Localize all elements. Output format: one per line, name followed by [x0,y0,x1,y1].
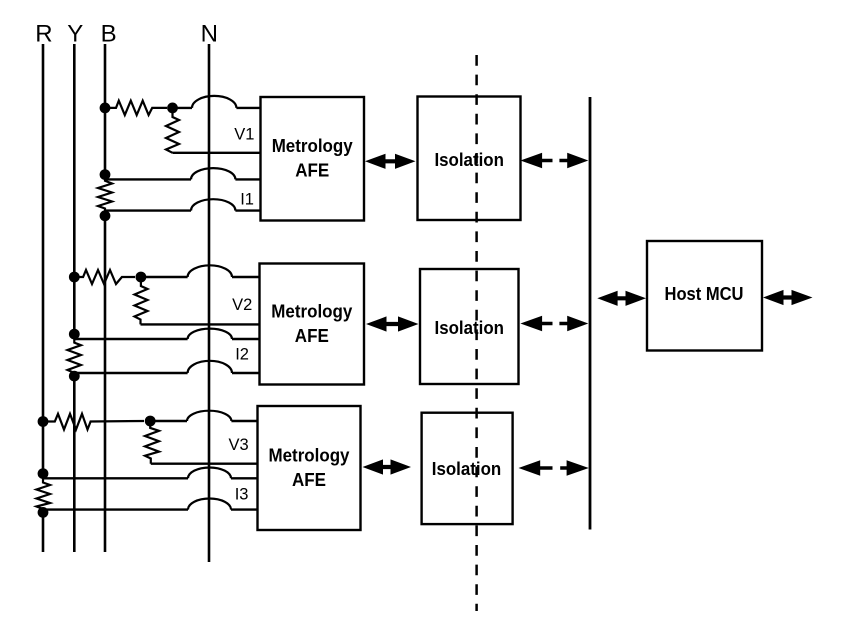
op-amp U3 Metrology AFE block 3 [258,406,361,530]
wire V1- to AFE [173,152,262,154]
host MCU block [647,241,762,351]
isolation block ISO2 [420,269,519,384]
resistor R3b (V3 divider lower) [145,421,159,464]
wire R phase bus lower [42,511,45,552]
wire double arrow AFE3 to ISO3 [363,459,412,474]
svg-text:V1: V1 [234,126,254,144]
wire broken arrow ISO1 to bus [520,153,552,169]
wire B phase bus lower [104,214,107,552]
wire hop I3- over N [188,499,231,510]
isolation block ISO1 [418,97,521,221]
node junction dot I3+ [38,468,49,479]
wire I1+ right segment to AFE [235,178,261,180]
wire I2- left segment [74,372,187,374]
wire double arrow bus to Host MCU [597,291,646,306]
wire I2- right segment to AFE [232,372,260,374]
wire I3+ right segment to AFE [231,477,259,479]
svg-text:I3: I3 [235,486,249,504]
svg-text:I1: I1 [240,191,254,209]
node junction dot V3 tap [145,416,156,427]
wire hop I1+ over N [191,168,235,179]
node junction dot I2+ [69,329,80,340]
svg-text:Isolation: Isolation [432,459,502,479]
svg-text:Metrology: Metrology [272,136,353,156]
wire V3- to AFE [151,463,259,465]
isolation block ISO3 [422,413,513,524]
op-amp U2 Metrology AFE block 2 [260,264,365,385]
node junction dot V2 tap [136,272,147,283]
wire Y phase bus upper [73,44,76,336]
svg-text:N: N [201,21,218,48]
node junction dot B/V1 [100,103,111,114]
node junction dot V1 tap [167,103,178,114]
wire V1+ left segment [173,107,193,109]
wire V2+ left segment [141,276,188,278]
wire B phase bus upper [104,44,107,177]
svg-text:B: B [101,21,117,48]
wire V1+ right segment to AFE [236,107,261,109]
wire I1- right segment to AFE [235,209,261,211]
svg-text:Host MCU: Host MCU [665,284,744,304]
node junction dot I1+ [100,169,111,180]
wire I3+ left segment [43,477,188,479]
node junction dot I1- [100,210,111,221]
svg-text:V3: V3 [229,436,249,454]
resistor R2c shunt on Y [68,334,82,376]
wire V2+ right segment to AFE [232,276,260,278]
node junction dot R/V3 [38,416,49,427]
wire V3+ left segment [150,420,187,422]
svg-text:Isolation: Isolation [435,318,505,338]
wire V3+ right segment to AFE [231,420,258,422]
resistor R2b (V2 divider lower) [135,277,148,324]
wire hop I1- over N [191,199,235,210]
resistor R1c shunt on B [98,175,112,216]
isolation barrier dashed line [475,55,478,611]
svg-text:V2: V2 [232,296,252,314]
wire I1+ left segment [105,178,191,180]
resistor R3a (R to V3 divider) [43,414,144,430]
svg-text:AFE: AFE [295,161,329,181]
resistor R2a (Y to V2 divider) [74,270,135,284]
wire V2- to AFE [141,323,261,325]
resistor R3c shunt on R [37,474,51,513]
wire Y phase bus lower [73,374,76,552]
svg-text:Metrology: Metrology [269,446,350,466]
svg-text:R: R [35,21,52,48]
wire double arrow AFE2 to ISO2 [366,316,419,331]
wire hop I2+ over N [188,329,232,339]
wire I2+ left segment [74,338,187,340]
svg-text:Metrology: Metrology [271,302,352,322]
wire broken arrow ISO3 to bus [519,460,553,476]
wire double arrow Host MCU external [763,290,813,305]
svg-text:Isolation: Isolation [434,150,504,170]
wire I2+ right segment to AFE [232,338,260,340]
wire hop I2- over N [188,361,232,373]
wire hop V3+ over N [187,411,231,421]
wire I3- right segment to AFE [231,508,259,510]
svg-text:Y: Y [67,21,83,48]
wire I1- left segment [105,209,191,211]
resistor R1a (B to V1 divider) [105,101,167,115]
node junction dot Y/V2 [69,272,80,283]
wire hop V2+ over N [188,265,232,277]
node junction dot I3- [38,507,49,518]
svg-text:I2: I2 [235,346,249,364]
wire R phase bus upper [42,44,45,475]
wire hop I3+ over N [188,467,231,478]
node junction dot I2- [69,371,80,382]
wire I3- left segment [43,508,188,510]
resistor R1b (V1 divider lower) [166,108,179,153]
wire hop V1+ over N [192,96,236,108]
wire broken arrow ISO2 to bus [520,316,552,332]
svg-text:AFE: AFE [295,326,329,346]
op-amp U1 Metrology AFE block 1 [261,97,365,221]
wire N neutral bus [208,44,211,562]
wire host-side bus [589,97,592,530]
svg-text:AFE: AFE [292,470,326,490]
wire double arrow AFE1 to ISO1 [365,154,416,169]
